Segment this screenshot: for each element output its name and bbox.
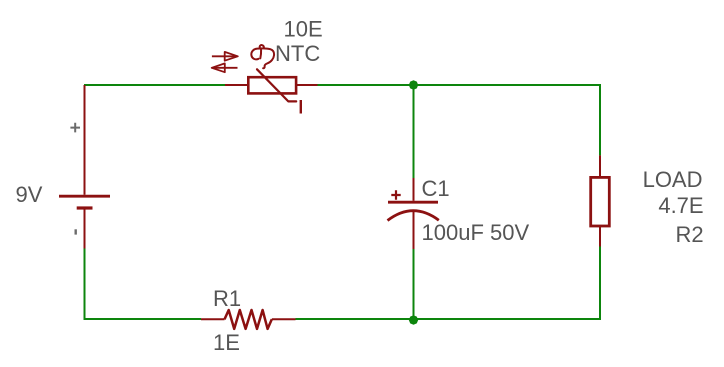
resistor R1 pins (201, 318, 296, 320)
resistor R2 pins (599, 155, 601, 246)
wire bottom-left green segment (84, 318, 202, 320)
capacitor C1 pins (413, 178, 415, 249)
resistor R1 zigzag (225, 310, 272, 329)
svg-text:C1: C1 (422, 176, 450, 201)
battery BT1 plates (59, 195, 110, 198)
thermistor RT1 pins (225, 84, 318, 86)
resistor R2 body (591, 177, 610, 226)
svg-text:R1: R1 (213, 286, 241, 311)
wire middle branch upper green (413, 85, 415, 178)
wire top-left green segment (84, 84, 225, 86)
battery minus mark (74, 229, 76, 234)
wire bottom-right green segment (296, 318, 602, 320)
svg-text:4.7E: 4.7E (658, 193, 703, 218)
thermistor arrow right (212, 55, 236, 57)
capacitor C1 bottom arc plate (388, 211, 439, 221)
capacitor C1 top plate (388, 201, 438, 204)
svg-text:9V: 9V (16, 182, 43, 207)
thermistor diagonal stroke (257, 69, 296, 101)
wire top-right green segment (318, 84, 601, 86)
thermistor theta symbol (260, 45, 264, 58)
wire right vertical upper green (599, 84, 601, 155)
node junction bottom (409, 315, 418, 325)
svg-text:1E: 1E (213, 330, 240, 355)
thermistor arrow left (214, 67, 238, 69)
battery plus mark (70, 123, 80, 133)
node junction top (409, 80, 418, 90)
thermistor I mark (300, 100, 302, 114)
svg-text:10E: 10E (284, 16, 323, 41)
capacitor plus mark (391, 190, 400, 199)
svg-text:R2: R2 (675, 222, 703, 247)
wire middle branch lower green (413, 249, 415, 319)
svg-text:LOAD: LOAD (643, 167, 703, 192)
wire right vertical lower green (599, 247, 601, 321)
thermistor RT1 body (248, 77, 296, 93)
battery BT1 pins (84, 85, 86, 249)
svg-text:NTC: NTC (275, 41, 320, 66)
wire left vertical green below battery (84, 249, 86, 321)
svg-text:100uF 50V: 100uF 50V (422, 220, 530, 245)
